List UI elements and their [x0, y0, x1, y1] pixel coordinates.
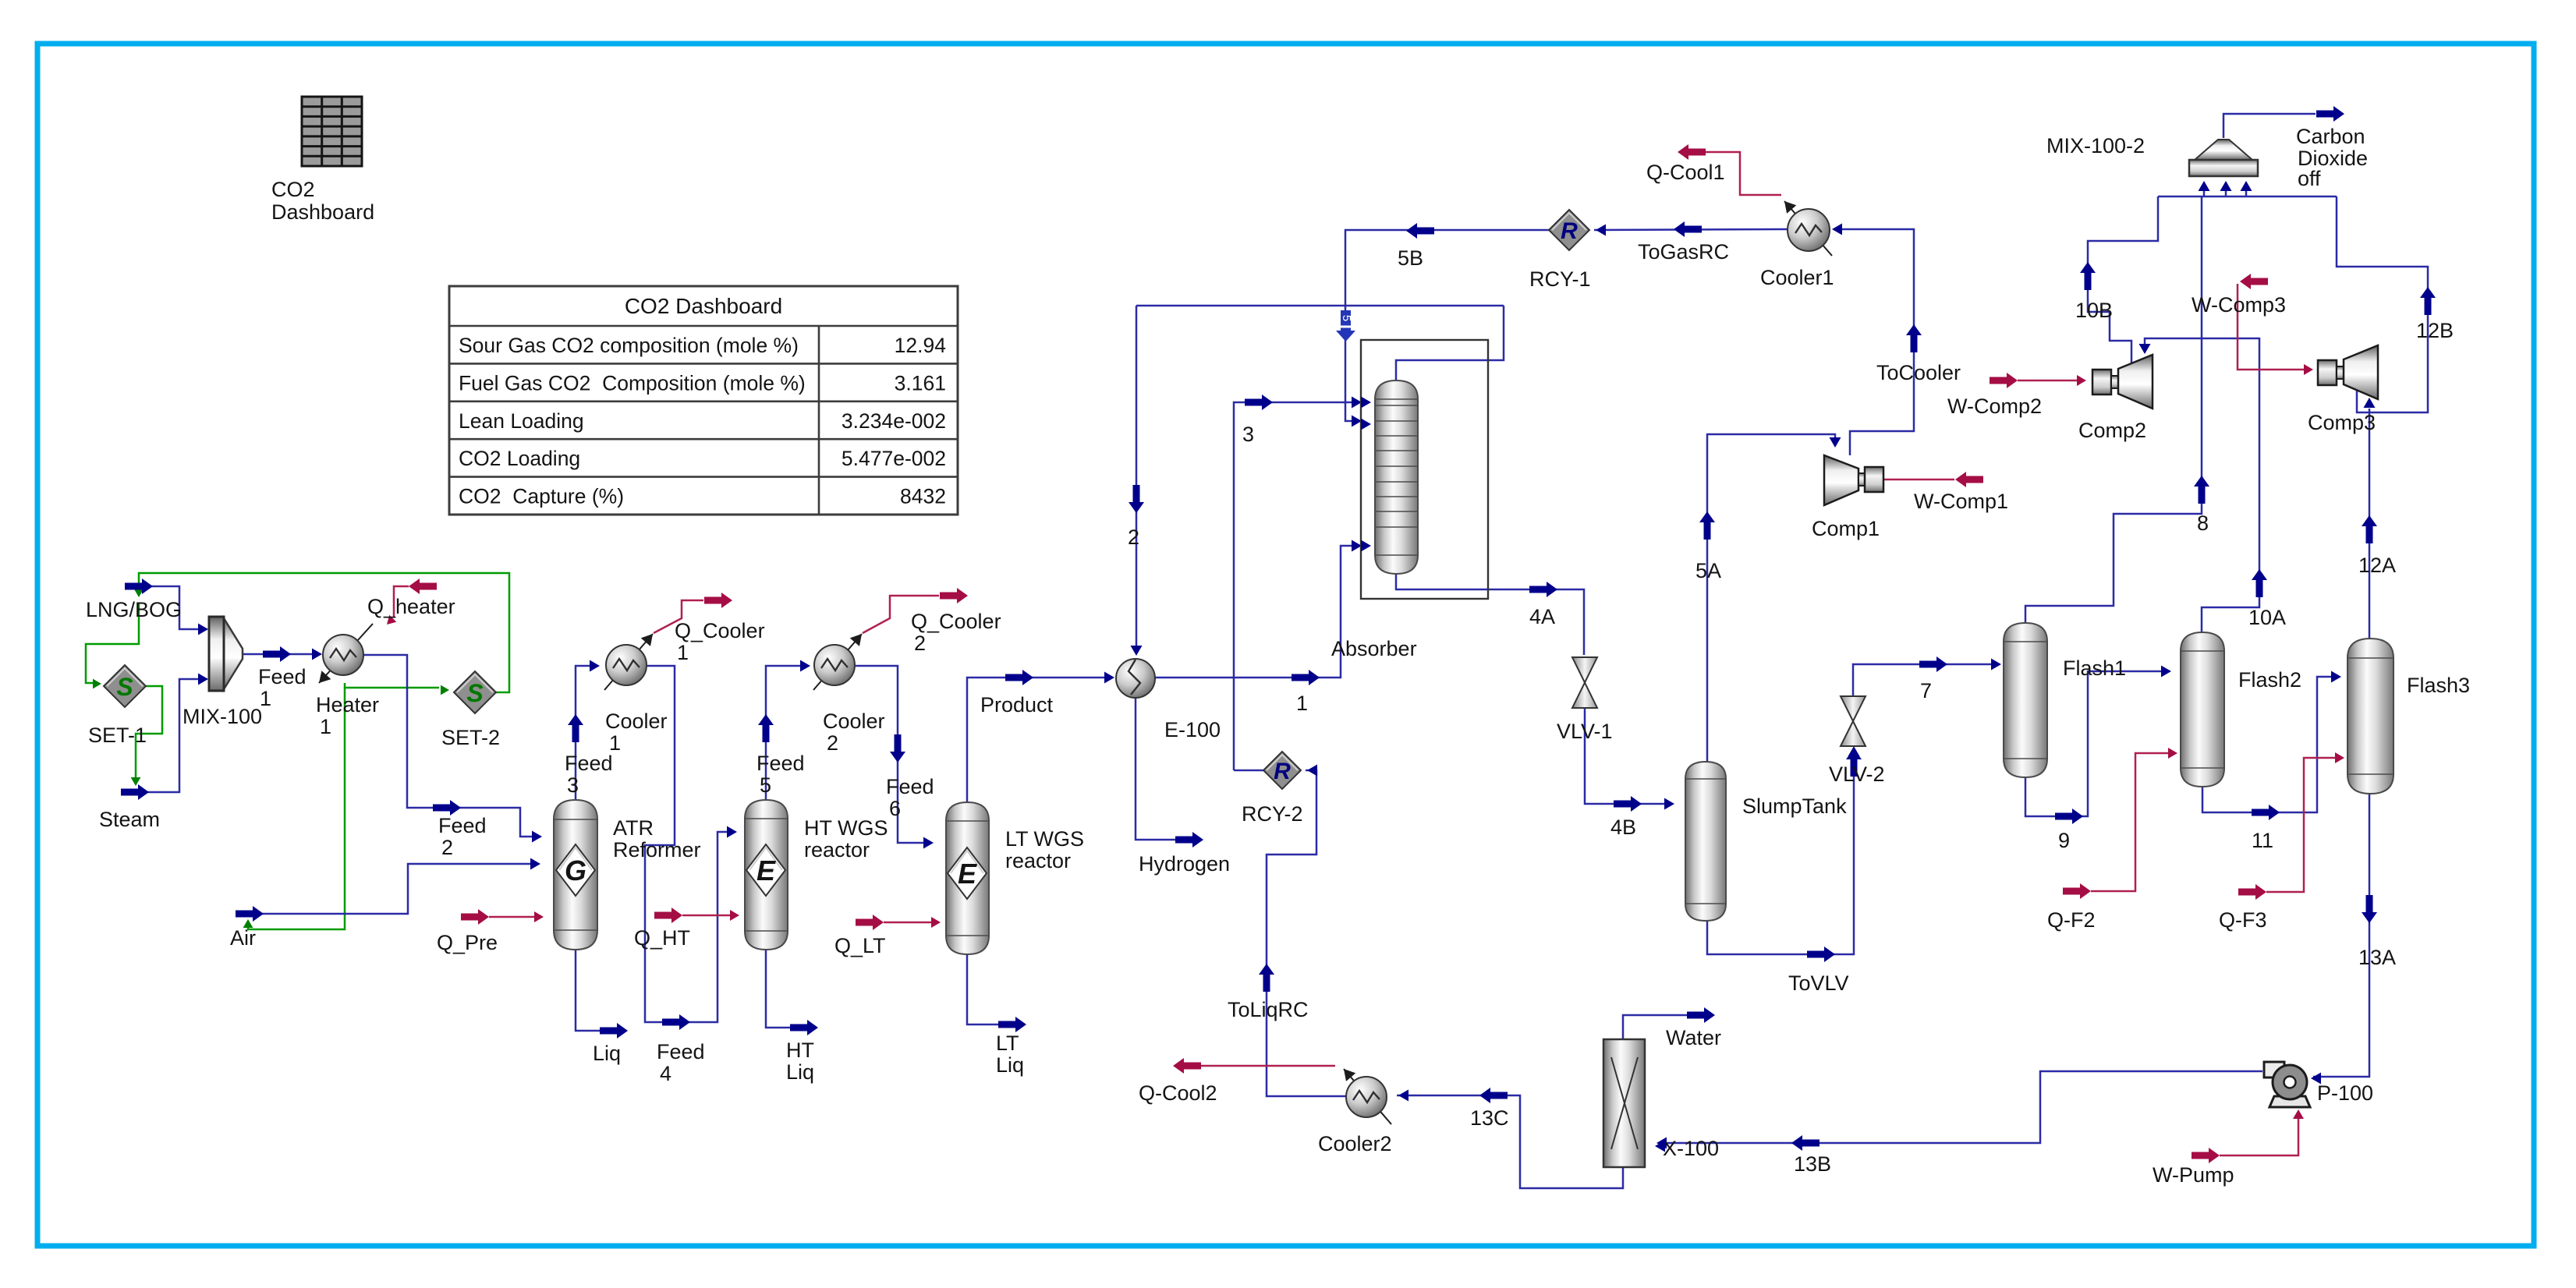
- stream ToCooler: [1834, 229, 1914, 455]
- stream 5A: [1707, 434, 1835, 762]
- stream Liq: [576, 950, 600, 1031]
- reactor ATR Reformer: [554, 800, 597, 950]
- svg-text:2: 2: [914, 632, 926, 655]
- svg-text:5: 5: [760, 773, 771, 797]
- stream Feed 2: [363, 655, 540, 837]
- energy Q_LT: [884, 922, 934, 924]
- wire recycle split to stream 2: [1136, 305, 1504, 307]
- stream 4A: [1396, 574, 1584, 655]
- svg-text:CO2 Dashboard: CO2 Dashboard: [625, 294, 782, 318]
- svg-text:3.234e-002: 3.234e-002: [842, 409, 946, 433]
- stream 7: [1853, 664, 1999, 696]
- svg-text:13A: 13A: [2358, 946, 2396, 969]
- compressor Comp1: [1824, 455, 1883, 505]
- svg-text:Steam: Steam: [99, 808, 160, 831]
- wire green heater to SET-2: [345, 683, 439, 688]
- svg-text:VLV-2: VLV-2: [1829, 763, 1885, 786]
- column Absorber: [1375, 380, 1418, 574]
- stream LT Liq: [967, 954, 998, 1024]
- recycle RCY-2: [1263, 752, 1301, 789]
- compressor Comp3: [2318, 345, 2378, 399]
- svg-text:ToLiqRC: ToLiqRC: [1228, 998, 1309, 1021]
- tank SlumpTank: [1685, 762, 1726, 921]
- stream 12B: [2337, 196, 2428, 412]
- svg-text:8: 8: [2197, 511, 2209, 535]
- svg-text:VLV-1: VLV-1: [1557, 720, 1613, 743]
- svg-text:Q_heater: Q_heater: [367, 595, 455, 618]
- svg-text:5.477e-002: 5.477e-002: [842, 447, 946, 470]
- svg-text:Air: Air: [230, 926, 256, 950]
- set block SET-1: [104, 665, 146, 707]
- svg-text:Q_Cooler: Q_Cooler: [675, 619, 765, 642]
- svg-text:1: 1: [1296, 692, 1308, 715]
- stream 5 marker: [1336, 310, 1355, 341]
- svg-text:4A: 4A: [1529, 605, 1555, 628]
- svg-text:MIX-100-2: MIX-100-2: [2046, 134, 2145, 157]
- svg-text:Water: Water: [1666, 1026, 1721, 1049]
- cooler Cooler1: [1784, 201, 1832, 256]
- svg-text:Liq: Liq: [996, 1053, 1024, 1077]
- svg-text:Feed: Feed: [886, 775, 934, 798]
- svg-text:5B: 5B: [1398, 246, 1423, 270]
- svg-text:Absorber: Absorber: [1331, 637, 1417, 660]
- svg-text:6: 6: [889, 797, 901, 820]
- reactor HT WGS: [745, 800, 788, 950]
- cooler Cooler 1: [604, 634, 653, 690]
- svg-text:Feed: Feed: [565, 752, 613, 775]
- stream Feed 5: [766, 666, 808, 800]
- energy W-Pump: [2220, 1116, 2298, 1155]
- svg-text:Q_Cooler: Q_Cooler: [911, 610, 1001, 633]
- stream 1: [1155, 546, 1359, 678]
- wire SET-2 to top green run: [139, 573, 509, 692]
- svg-text:10B: 10B: [2075, 299, 2113, 322]
- svg-text:E: E: [958, 858, 977, 890]
- svg-text:2: 2: [827, 731, 838, 755]
- wire green LNG/BOG to SET-1: [86, 603, 139, 683]
- svg-text:8432: 8432: [900, 485, 946, 508]
- flash drum Flash3: [2347, 639, 2394, 794]
- stream 10B: [2088, 196, 2158, 363]
- flash drum Flash2: [2181, 632, 2224, 787]
- svg-text:2: 2: [441, 836, 453, 859]
- heat exchanger E-100: [1116, 659, 1155, 698]
- energy W-Comp2: [2018, 380, 2081, 382]
- energy Q_Pre: [489, 916, 538, 918]
- wire RCY-2 to stream 3 riser: [1234, 770, 1264, 772]
- svg-text:reactor: reactor: [804, 838, 870, 862]
- svg-text:13C: 13C: [1470, 1106, 1509, 1130]
- svg-text:Feed: Feed: [438, 814, 487, 837]
- stream 10A: [2145, 338, 2259, 632]
- energy Q-F3: [2266, 758, 2338, 892]
- cooler Cooler2: [1344, 1069, 1391, 1124]
- valve VLV-2: [1841, 696, 1866, 721]
- svg-text:Flash3: Flash3: [2407, 674, 2470, 697]
- stream 5B: [1345, 230, 1589, 421]
- recycle RCY-1: [1549, 210, 1589, 250]
- absorber sub-flowsheet box: [1361, 340, 1488, 599]
- svg-text:HT: HT: [786, 1039, 814, 1062]
- svg-text:10A: 10A: [2248, 606, 2286, 629]
- heater Heater 1: [319, 624, 373, 683]
- stream Water: [1623, 1015, 1687, 1039]
- svg-text:LNG/BOG: LNG/BOG: [86, 598, 182, 621]
- svg-text:Comp1: Comp1: [1812, 517, 1880, 540]
- svg-text:SET-1: SET-1: [88, 724, 147, 747]
- svg-text:Carbon: Carbon: [2296, 125, 2365, 148]
- stream 13A: [2313, 794, 2369, 1077]
- svg-text:Hydrogen: Hydrogen: [1139, 852, 1230, 876]
- stream 2: [1136, 306, 1138, 653]
- stream Carbon Dioxide off: [2223, 114, 2316, 138]
- svg-text:12B: 12B: [2416, 319, 2454, 342]
- splitter X-100: [1603, 1039, 1645, 1167]
- svg-text:SlumpTank: SlumpTank: [1742, 794, 1847, 818]
- svg-text:Q_Pre: Q_Pre: [437, 931, 498, 954]
- wire mixer inlet stubs: [2203, 190, 2206, 196]
- svg-text:RCY-2: RCY-2: [1242, 802, 1303, 826]
- stream HT Liq: [766, 950, 790, 1028]
- svg-text:3.161: 3.161: [895, 371, 946, 395]
- wire SET-1 to Steam: [136, 686, 162, 782]
- svg-text:P-100: P-100: [2317, 1081, 2373, 1105]
- wire green down to Air: [248, 688, 345, 929]
- svg-text:5: 5: [1340, 315, 1353, 321]
- svg-text:Flash2: Flash2: [2238, 668, 2301, 692]
- svg-text:W-Pump: W-Pump: [2153, 1163, 2234, 1187]
- pump P-100: [2264, 1062, 2310, 1107]
- stream Feed 6: [856, 666, 931, 843]
- CO2 Dashboard spreadsheet icon: [302, 97, 362, 166]
- compressor Comp2: [2092, 355, 2153, 409]
- mixer MIX-100-2: [2189, 140, 2258, 176]
- svg-text:ToCooler: ToCooler: [1876, 361, 1961, 384]
- svg-text:Comp3: Comp3: [2308, 411, 2376, 434]
- svg-text:Comp2: Comp2: [2078, 419, 2146, 442]
- svg-text:12.94: 12.94: [895, 334, 946, 357]
- svg-text:2: 2: [1128, 525, 1139, 549]
- stream 12A: [2369, 409, 2371, 639]
- svg-text:SET-2: SET-2: [441, 726, 500, 749]
- svg-text:LT WGS: LT WGS: [1005, 827, 1084, 851]
- energy W-Comp1: [1883, 479, 1954, 481]
- svg-text:Flash1: Flash1: [2063, 656, 2126, 680]
- svg-text:3: 3: [567, 773, 579, 797]
- energy W-Comp3: [2238, 284, 2307, 370]
- svg-text:R: R: [1274, 759, 1291, 784]
- stream 13B: [1659, 1071, 2262, 1143]
- svg-text:CO2 Capture (%): CO2 Capture (%): [459, 485, 624, 508]
- svg-text:1: 1: [320, 715, 331, 738]
- svg-text:S: S: [466, 679, 484, 707]
- stream 13C: [1397, 1095, 1623, 1188]
- stream 4B: [1585, 708, 1672, 804]
- svg-text:off: off: [2298, 167, 2321, 190]
- svg-text:Q_HT: Q_HT: [634, 926, 690, 950]
- stream ToLiqRC: [1267, 770, 1346, 1096]
- svg-text:Cooler2: Cooler2: [1318, 1132, 1392, 1155]
- svg-text:Reformer: Reformer: [613, 838, 701, 862]
- svg-text:Dashboard: Dashboard: [271, 200, 374, 224]
- svg-text:4: 4: [660, 1062, 671, 1085]
- stream Feed 3: [576, 666, 597, 800]
- svg-text:HT WGS: HT WGS: [804, 816, 888, 840]
- tower inlet arrowheads: [1361, 397, 1371, 409]
- svg-text:Liq: Liq: [786, 1060, 814, 1084]
- svg-text:Feed: Feed: [258, 665, 306, 688]
- svg-text:Feed: Feed: [757, 752, 805, 775]
- svg-text:ToVLV: ToVLV: [1788, 971, 1849, 995]
- set block SET-2: [454, 671, 496, 713]
- CO2 Dashboard table: [449, 286, 958, 515]
- stream Feed 4: [645, 666, 735, 1022]
- svg-text:CO2 Loading: CO2 Loading: [459, 447, 580, 470]
- valve VLV-1: [1572, 657, 1597, 683]
- svg-text:E-100: E-100: [1164, 718, 1221, 741]
- stream Air: [236, 864, 538, 914]
- svg-text:9: 9: [2058, 829, 2070, 852]
- svg-text:Q-F3: Q-F3: [2219, 908, 2267, 932]
- svg-text:Lean Loading: Lean Loading: [459, 409, 584, 433]
- svg-text:Liq: Liq: [593, 1042, 621, 1065]
- energy Q-Cool2: [1201, 1065, 1335, 1067]
- svg-text:4B: 4B: [1610, 816, 1636, 839]
- svg-text:CO2: CO2: [271, 178, 315, 201]
- wire mixer inlet bus: [2158, 196, 2337, 198]
- svg-text:5A: 5A: [1695, 559, 1721, 582]
- svg-text:ATR: ATR: [613, 816, 654, 840]
- svg-text:Fuel Gas CO2 Composition (mol: Fuel Gas CO2 Composition (mole %): [459, 371, 806, 395]
- svg-text:Q-Cool2: Q-Cool2: [1139, 1081, 1217, 1105]
- svg-text:W-Comp3: W-Comp3: [2192, 293, 2286, 317]
- stream Product: [967, 678, 1112, 802]
- stream ToVLV: [1707, 748, 1854, 954]
- svg-text:Q_LT: Q_LT: [834, 934, 886, 957]
- svg-text:Cooler1: Cooler1: [1760, 266, 1834, 289]
- stream Hydrogen: [1136, 698, 1175, 840]
- svg-text:Feed: Feed: [657, 1040, 705, 1063]
- svg-text:X-100: X-100: [1663, 1137, 1719, 1160]
- svg-text:LT: LT: [996, 1031, 1019, 1055]
- stream 3: [1234, 402, 1359, 770]
- energy Q-F2: [2091, 753, 2171, 891]
- svg-text:3: 3: [1242, 423, 1254, 446]
- svg-text:1: 1: [677, 641, 689, 664]
- reactor LT WGS: [946, 802, 989, 954]
- svg-text:G: G: [565, 855, 586, 886]
- svg-text:W-Comp1: W-Comp1: [1914, 490, 2008, 513]
- cooler Cooler 2: [813, 634, 862, 690]
- svg-text:reactor: reactor: [1005, 849, 1071, 872]
- svg-text:Cooler: Cooler: [605, 709, 668, 733]
- svg-text:Sour Gas CO2 composition (mole: Sour Gas CO2 composition (mole %): [459, 334, 799, 357]
- stream Steam: [121, 679, 206, 792]
- stream 9: [2025, 671, 2169, 816]
- stream 8: [2025, 196, 2202, 623]
- svg-text:S: S: [116, 673, 133, 701]
- svg-text:Q-Cool1: Q-Cool1: [1646, 161, 1725, 184]
- svg-text:RCY-1: RCY-1: [1529, 267, 1591, 291]
- wire absorber overhead: [1396, 306, 1504, 380]
- svg-text:1: 1: [609, 731, 621, 755]
- svg-text:E: E: [757, 855, 776, 886]
- svg-text:R: R: [1561, 218, 1578, 244]
- energy Q-Cool1: [1706, 152, 1781, 195]
- energy Q_Cooler 2: [863, 596, 939, 633]
- mixer MIX-100: [209, 617, 243, 691]
- svg-text:MIX-100: MIX-100: [182, 705, 262, 728]
- svg-text:7: 7: [1920, 679, 1932, 702]
- stream LNG/BOG: [125, 586, 206, 629]
- stream ToGasRC: [1594, 229, 1788, 230]
- stream Feed 1: [243, 653, 321, 656]
- svg-text:Cooler: Cooler: [823, 709, 885, 733]
- svg-text:Heater: Heater: [316, 693, 379, 717]
- svg-text:W-Comp2: W-Comp2: [1947, 395, 2042, 418]
- svg-text:Q-F2: Q-F2: [2047, 908, 2096, 932]
- svg-text:13B: 13B: [1794, 1152, 1831, 1176]
- svg-text:ToGasRC: ToGasRC: [1638, 240, 1729, 264]
- energy Q_Cooler 1: [654, 600, 703, 633]
- stream 11: [2202, 677, 2339, 812]
- svg-text:11: 11: [2252, 829, 2273, 852]
- svg-text:Product: Product: [980, 693, 1054, 717]
- energy Q_heater: [394, 586, 409, 617]
- energy Q_HT: [682, 915, 733, 917]
- svg-text:12A: 12A: [2358, 554, 2396, 577]
- flash drum Flash1: [2004, 623, 2047, 777]
